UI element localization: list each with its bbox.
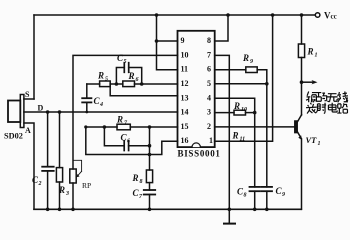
svg-text:SD02: SD02 (4, 132, 23, 141)
svg-text:R: R (128, 71, 135, 81)
svg-text:1: 1 (315, 53, 318, 59)
svg-text:RP: RP (82, 181, 91, 190)
junction top rail / pin8 wire (226, 13, 230, 17)
resistor R10 on pin3 (215, 112, 234, 114)
svg-text:BISS0001: BISS0001 (178, 149, 221, 159)
potentiometer RP (70, 169, 76, 183)
resistor R8 (146, 170, 152, 183)
junction ground rail / RP (71, 208, 75, 212)
编 (306, 92, 317, 103)
resistor R3 (59, 112, 61, 168)
svg-text:12: 12 (181, 79, 189, 88)
capacitor C4 (86, 84, 88, 98)
码 (316, 93, 327, 102)
junction R6 / C5 right (140, 82, 144, 86)
junction collector / arrow (300, 80, 304, 84)
junction top rail / pin11 wire (155, 13, 159, 17)
junction ground rail / C2 (46, 208, 50, 212)
wire left S vertical (33, 15, 35, 99)
wire pin4 (215, 98, 255, 112)
svg-text:D: D (38, 104, 44, 113)
capacitor C7 (149, 183, 151, 190)
junction top rail / R1 (300, 13, 304, 17)
svg-text:1: 1 (209, 136, 213, 145)
svg-text:2: 2 (207, 122, 211, 131)
junction ground rail / R3 (58, 208, 62, 212)
svg-text:3: 3 (207, 108, 211, 117)
svg-text:8: 8 (207, 36, 211, 45)
wire pin8 to rail (215, 15, 228, 41)
capacitor C9 (262, 186, 272, 188)
capacitor C8 (250, 186, 260, 188)
junction ground rail / C8 (253, 208, 257, 212)
capacitor C2 (47, 112, 49, 167)
junction pin5-R9 node / C9 (265, 82, 269, 86)
svg-text:A: A (25, 126, 31, 135)
resistor R6 (123, 81, 135, 87)
无 (327, 94, 338, 102)
svg-text:11: 11 (181, 65, 189, 74)
junction ground rail / ground wire (228, 208, 232, 212)
terminal Vcc circle (315, 13, 320, 18)
sensor SD02 flange (20, 95, 24, 128)
resistor R1 (301, 15, 303, 44)
junction pin15 line corner (84, 125, 87, 128)
IC U1 BISS0001 box (178, 31, 215, 147)
svg-text:R: R (58, 185, 65, 195)
wire pin13 jog (110, 84, 177, 96)
svg-text:R: R (242, 53, 249, 63)
junction D line / C2 (46, 110, 50, 114)
wire bottom ground rail (34, 208, 301, 210)
potentiometer RP wiper arrow (73, 160, 82, 177)
wire R10 node down to C8 (254, 113, 256, 187)
svg-text:10: 10 (241, 107, 247, 113)
svg-text:6: 6 (127, 139, 130, 145)
svg-text:3: 3 (65, 191, 69, 197)
junction ground rail / C9 (265, 208, 269, 212)
svg-text:R: R (232, 131, 239, 141)
svg-text:15: 15 (181, 122, 189, 131)
svg-text:5: 5 (124, 59, 127, 65)
junction top rail / pin1 wire (271, 13, 275, 17)
sensor SD02 body (8, 101, 20, 123)
svg-text:6: 6 (207, 65, 211, 74)
svg-text:S: S (25, 90, 30, 99)
svg-text:9: 9 (282, 192, 285, 198)
svg-text:R: R (132, 173, 139, 183)
junction R7-C6 left node (103, 125, 107, 129)
wire pin5 (215, 83, 267, 85)
junction feedback line / R8 (148, 153, 152, 157)
ground symbol (224, 223, 235, 225)
wire pin15 R7 line (86, 126, 117, 128)
wire pin10 vertical (73, 55, 178, 169)
路 (337, 104, 347, 113)
svg-text:11: 11 (240, 137, 246, 143)
wire pin2 to base (215, 126, 295, 128)
capacitor C6 parallel loop (104, 127, 124, 146)
svg-text:13: 13 (181, 93, 189, 102)
svg-text:R: R (233, 101, 240, 111)
svg-text:cc: cc (331, 13, 337, 21)
射 (316, 103, 326, 114)
svg-text:VT: VT (306, 135, 318, 145)
transistor VT1 (295, 121, 297, 133)
wire pin5 node down to C9 (266, 84, 268, 187)
junction pin9 / pin11 wire (155, 39, 159, 43)
svg-text:16: 16 (181, 136, 189, 145)
svg-text:5: 5 (207, 79, 211, 88)
junction ground rail / C7 (148, 208, 152, 212)
wire top Vcc rail (34, 14, 315, 16)
svg-text:4: 4 (99, 102, 103, 108)
wire pin9 (157, 40, 178, 42)
wire D line to pin14 (24, 111, 178, 113)
resistor R9 on pin6 (215, 69, 246, 71)
label 编码无线 发射电路 (drawn glyphs) (306, 92, 348, 114)
svg-text:10: 10 (181, 50, 189, 59)
wire S stub (24, 98, 34, 100)
svg-text:14: 14 (181, 108, 189, 117)
resistor R7 (117, 124, 130, 130)
svg-text:8: 8 (140, 179, 143, 185)
wire R5 R6 line to pin12 (87, 83, 100, 85)
svg-text:4: 4 (207, 93, 211, 102)
svg-text:R: R (97, 71, 104, 81)
svg-text:9: 9 (250, 59, 253, 65)
svg-text:8: 8 (244, 193, 247, 199)
svg-text:9: 9 (181, 36, 185, 45)
发 (306, 103, 317, 114)
svg-text:R: R (307, 47, 314, 57)
resistor R5 (100, 81, 111, 87)
svg-text:5: 5 (105, 77, 108, 83)
junction pin3-pin4 node / C8 (253, 111, 257, 115)
junction node R5-R6 / C5 (115, 82, 119, 86)
svg-text:R: R (116, 115, 123, 125)
svg-text:7: 7 (207, 50, 211, 59)
svg-text:6: 6 (136, 77, 139, 83)
svg-text:2: 2 (38, 181, 42, 187)
电 (328, 103, 337, 112)
wire A vertical down (24, 123, 34, 209)
arrow to transmitter (302, 81, 314, 83)
线 (337, 92, 348, 103)
junction C6 / R8 branch (148, 144, 152, 148)
capacitor C5 parallel loop (116, 68, 124, 85)
junction R7-C6 right node (148, 125, 152, 129)
wire pin1 to Vcc rail (215, 15, 273, 141)
wire pin16 to feedback node (86, 127, 178, 155)
wire pin7 to ground (215, 55, 230, 223)
IC notch (192, 143, 200, 147)
wire pin11 from rail (157, 15, 178, 70)
junction D line / R3 (58, 110, 62, 114)
svg-text:1: 1 (318, 141, 321, 147)
junction D line / C4 (85, 111, 88, 114)
